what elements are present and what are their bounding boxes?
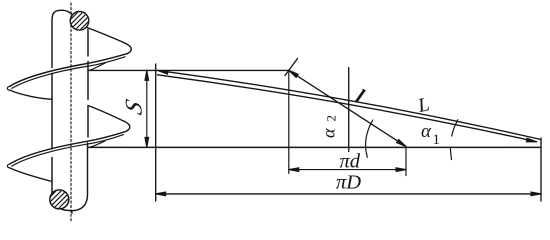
- right vertical extension: [540, 138, 542, 201]
- alpha1 angle arc: [450, 120, 457, 160]
- svg-text:α: α: [421, 121, 432, 142]
- helix front edge 1 upper (curve B): [10, 54, 128, 87]
- helix edge merge into base line: [90, 141, 106, 147]
- auger bottom shaft bullet: [52, 143, 88, 213]
- svg-text:πd: πd: [340, 150, 361, 172]
- svg-text:πD: πD: [336, 171, 361, 193]
- helix front edge 2 upper (curve D): [10, 131, 126, 164]
- dimension pi-D line: [156, 193, 541, 195]
- helix right tip 1 fold: [125, 43, 131, 53]
- svg-text:1: 1: [433, 132, 441, 148]
- auger shaft right line: [87, 30, 89, 138]
- auger shaft dome top: [52, 10, 74, 67]
- dimension S line: [146, 70, 148, 147]
- pi-d right extension: [405, 147, 407, 175]
- helix left tip 2 fold: [7, 164, 10, 168]
- helix back edge 2 left (curve C): [10, 90, 52, 99]
- helix right tip 2 fold: [124, 121, 130, 131]
- auger centerline: [70, 3, 72, 222]
- hypotenuse l line (inner development): [289, 70, 406, 146]
- svg-text:α: α: [319, 128, 339, 138]
- mid vertical line: [348, 68, 350, 152]
- blade section circle bottom (hatched): [50, 190, 69, 209]
- hypotenuse L dimension line: [158, 75, 537, 142]
- svg-text:2: 2: [324, 115, 339, 122]
- helix front edge 2 lower (blade thickness): [12, 135, 124, 167]
- helix edge merge into top reference line: [90, 63, 106, 70]
- hypotenuse upper line (to right vertex): [158, 70, 542, 139]
- helix back edge 2 right: [88, 106, 124, 122]
- dimension pi-d line: [289, 169, 406, 171]
- helix back edge 3 (curve E): [10, 168, 52, 182]
- vertical extension at pi-d left / T2: [288, 70, 290, 173]
- helix left tip 1 fold: [7, 86, 10, 90]
- auger shaft left line: [51, 74, 53, 161]
- helix front edge 1 lower (blade thickness): [12, 57, 125, 89]
- label alpha2: [319, 115, 339, 138]
- helix back edge top (curve A): [87, 28, 125, 44]
- top reference line (pitch top): [88, 69, 289, 71]
- alpha2 angle arc: [366, 120, 373, 157]
- blade section circle top (hatched): [70, 11, 89, 30]
- base line (pi D baseline): [88, 146, 541, 148]
- left vertical leg / extension: [155, 64, 157, 201]
- oblique tick at top of l: [285, 59, 298, 76]
